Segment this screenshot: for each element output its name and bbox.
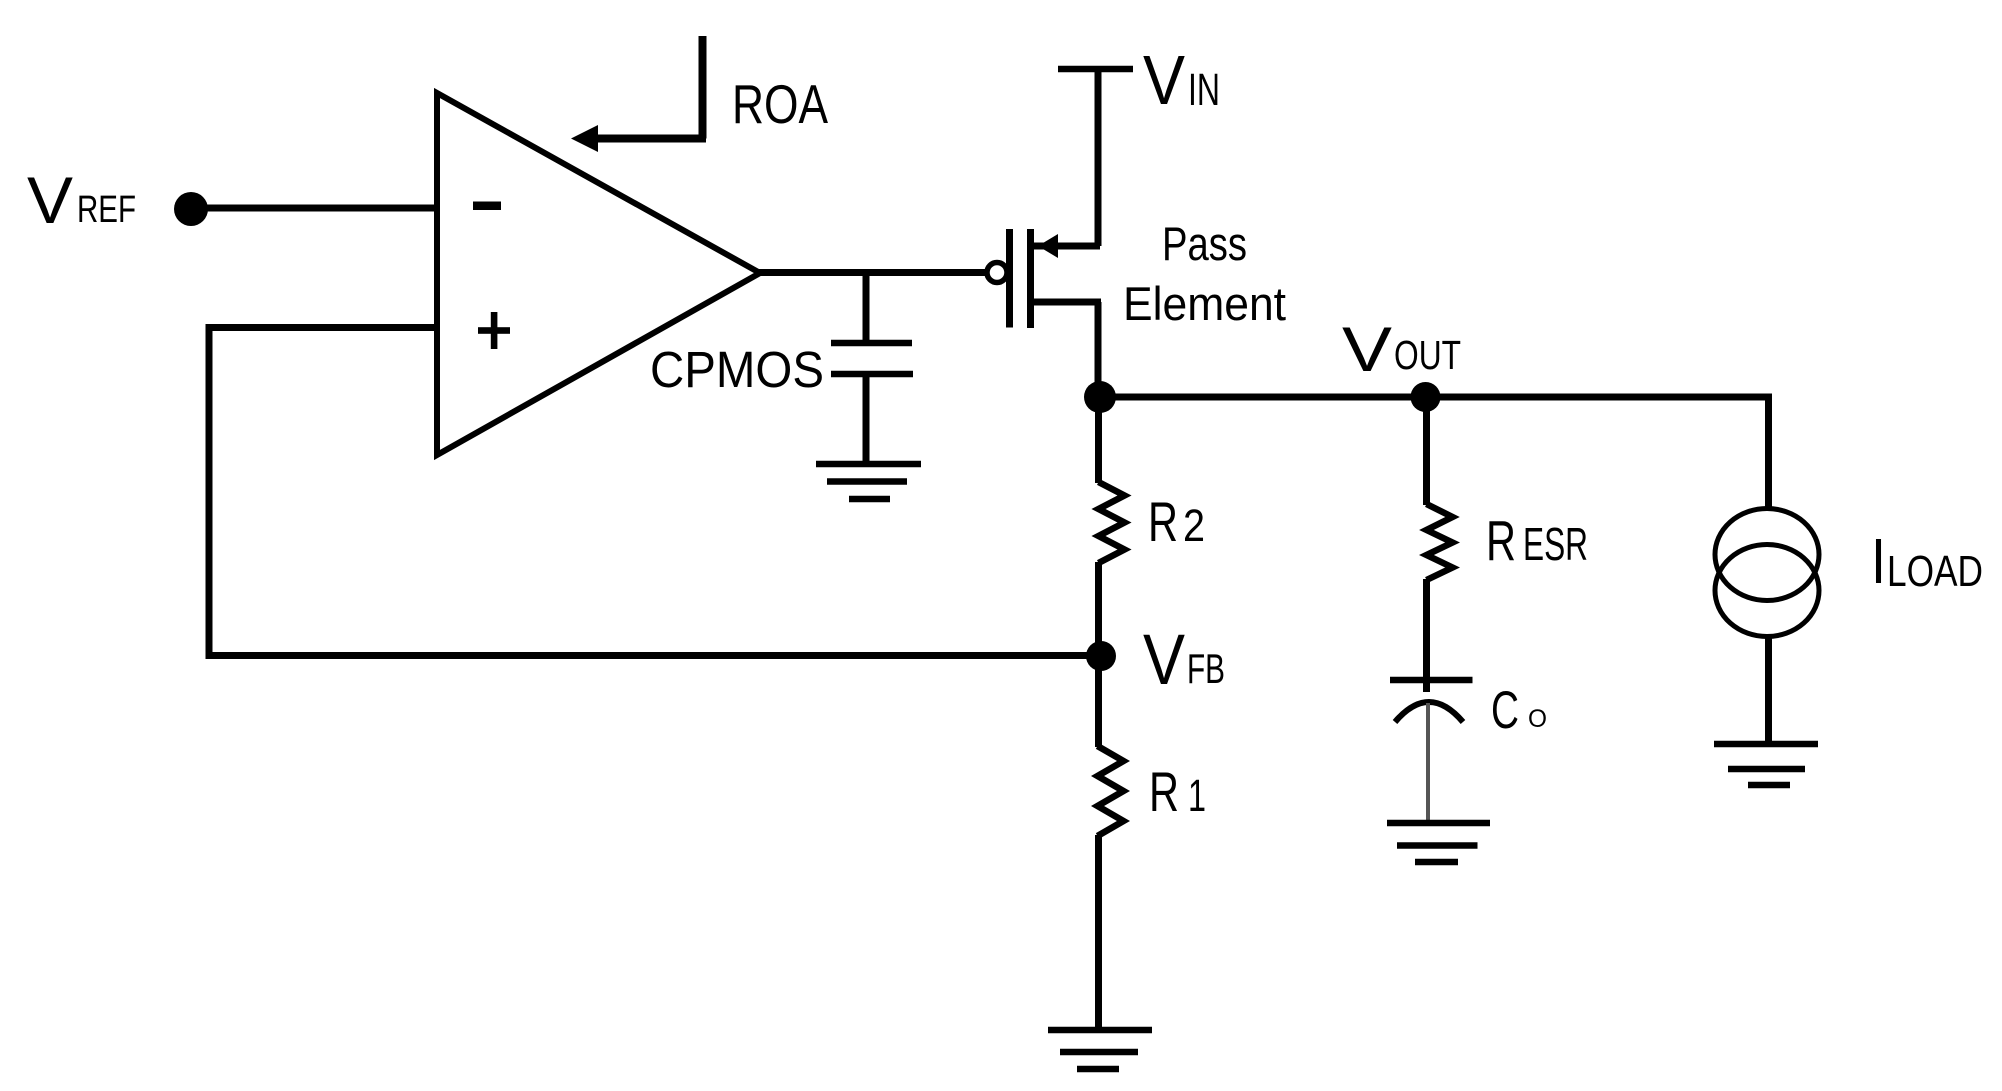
ground (CPMOS) xyxy=(816,464,921,499)
svg-text:Element: Element xyxy=(1123,277,1286,330)
svg-text:1: 1 xyxy=(1188,770,1206,821)
op-amp minus sign xyxy=(473,202,501,211)
capacitor Co xyxy=(1390,680,1473,821)
capacitor CPMOS xyxy=(831,273,913,464)
svg-text:LOAD: LOAD xyxy=(1887,547,1983,596)
wire VOUT rail xyxy=(1100,397,1772,508)
svg-text:REF: REF xyxy=(77,189,136,231)
ground (ILOAD) xyxy=(1714,744,1818,785)
node VOUT dot xyxy=(1411,382,1441,412)
svg-text:ESR: ESR xyxy=(1523,518,1588,570)
node VFB dot xyxy=(1086,641,1116,671)
wire VIN rail xyxy=(1058,69,1133,246)
wire VREF to op-amp inverting input xyxy=(191,205,440,212)
current source ILOAD xyxy=(1715,509,1819,745)
node junction dot at drain / VOUT rail xyxy=(1084,381,1116,413)
svg-text:2: 2 xyxy=(1183,500,1205,551)
svg-text:I: I xyxy=(1871,525,1886,597)
svg-text:V: V xyxy=(27,163,73,237)
svg-text:C: C xyxy=(1491,681,1519,740)
wire feedback VFB to op-amp non-inverting input xyxy=(206,324,1101,659)
svg-text:V: V xyxy=(1342,315,1392,385)
label R2 xyxy=(1148,490,1205,553)
resistor RESR xyxy=(1427,504,1453,692)
label VFB xyxy=(1143,621,1225,700)
svg-text:R: R xyxy=(1486,509,1516,573)
svg-text:R: R xyxy=(1148,490,1178,553)
resistor R2 xyxy=(1099,397,1125,656)
wire op-amp output to PMOS gate xyxy=(757,269,986,276)
label ILOAD xyxy=(1871,525,1983,597)
label RESR xyxy=(1486,509,1588,573)
svg-text:ROA: ROA xyxy=(732,73,828,135)
label Co xyxy=(1491,681,1547,740)
svg-text:OUT: OUT xyxy=(1394,332,1461,378)
wire PMOS drain to VOUT node xyxy=(1095,302,1102,397)
ground (Co) xyxy=(1387,823,1490,862)
label VREF xyxy=(27,163,136,237)
ground (R1) xyxy=(1048,1030,1152,1069)
svg-text:V: V xyxy=(1143,41,1185,119)
label R1 xyxy=(1149,760,1206,823)
resistor R1 xyxy=(1098,656,1124,1030)
node VREF terminal dot xyxy=(174,192,208,226)
op-amp U1 xyxy=(437,93,760,455)
op-amp plus sign xyxy=(478,312,510,349)
svg-text:R: R xyxy=(1149,760,1179,823)
ROA pointer arrow xyxy=(571,36,706,152)
label VIN xyxy=(1143,41,1220,119)
svg-text:FB: FB xyxy=(1187,645,1225,692)
svg-text:V: V xyxy=(1143,621,1186,700)
label VOUT xyxy=(1342,315,1461,385)
svg-text:O: O xyxy=(1528,705,1547,733)
svg-text:Pass: Pass xyxy=(1162,217,1247,270)
transistor PMOS pass element xyxy=(987,229,1101,328)
svg-text:IN: IN xyxy=(1188,64,1220,115)
wire VOUT node to RESR xyxy=(1423,397,1430,505)
svg-text:CPMOS: CPMOS xyxy=(650,341,824,398)
label Pass Element xyxy=(1123,217,1286,330)
